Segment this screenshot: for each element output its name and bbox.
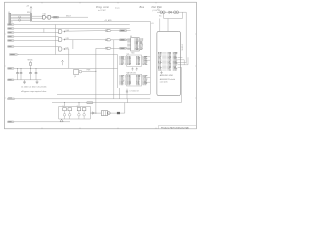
ground GND1	[24, 80, 26, 82]
gate U2C	[59, 47, 62, 51]
svg-text:7400: 7400	[131, 52, 135, 54]
speaker LS1	[101, 111, 107, 116]
gate U1B	[48, 15, 51, 19]
wire U2B out	[64, 39, 105, 41]
wire osc out	[90, 112, 96, 114]
wire net D2	[14, 32, 59, 34]
svg-text:Y2: Y2	[77, 106, 79, 108]
svg-text:to ICSP: to ICSP	[98, 9, 106, 12]
jumper JP2	[19, 19, 21, 21]
wire low rail	[52, 102, 87, 104]
IC U4 left pins	[127, 38, 130, 40]
ground GND4	[60, 119, 63, 122]
wire OSC1	[15, 98, 151, 100]
svg-text:SHIELD: SHIELD	[182, 43, 184, 50]
net label D2	[8, 32, 14, 34]
svg-text:PICduino NDR 2018-03-07(A): PICduino NDR 2018-03-07(A)	[161, 126, 189, 129]
wire vertical right trunk	[149, 21, 151, 94]
net tag MCLR box	[53, 16, 59, 18]
capacitor C3	[30, 68, 32, 72]
net label RST	[8, 46, 14, 48]
module A1 (Arduino)	[157, 31, 181, 95]
buffer U3B	[105, 39, 107, 41]
oscillator group	[58, 106, 60, 119]
junction dot PWR	[95, 71, 96, 72]
svg-text:C1 100n C2 100n C3,C4 100n: C1 100n C2 100n C3,C4 100n	[21, 87, 46, 89]
wire right down	[185, 12, 187, 63]
module right bracket wires	[178, 56, 183, 58]
ferrite bead FB1	[117, 112, 120, 114]
svg-text:Bus: Bus	[140, 5, 145, 9]
wire power loop	[163, 14, 165, 19]
svg-text:Y1: Y1	[62, 106, 64, 108]
module pin names right	[168, 51, 169, 54]
svg-text:C7 100n C8: C7 100n C8	[130, 91, 139, 93]
net tag U3B out	[120, 39, 127, 41]
ground GND3	[90, 112, 92, 114]
wire net D0	[14, 24, 130, 26]
capacitor C2	[20, 68, 22, 72]
buffer U3A	[105, 30, 107, 32]
wire into module top	[159, 19, 161, 32]
svg-text:MCLR: MCLR	[66, 16, 72, 18]
power flag VCC above RN1	[30, 8, 32, 13]
svg-text:U6 74HC595: U6 74HC595	[127, 73, 136, 75]
svg-text:conn (ref): conn (ref)	[160, 82, 168, 84]
svg-text:all bypass caps required close: all bypass caps required close	[21, 90, 46, 93]
wire U2C down to rail	[68, 49, 70, 68]
wire net D1	[14, 28, 130, 30]
net label VCC rail	[8, 68, 14, 70]
wire net RST	[14, 46, 59, 48]
module inner stubs	[162, 52, 166, 54]
wire jack feed	[96, 112, 125, 114]
sheet border frame	[5, 2, 197, 129]
svg-text:Vin: Vin	[159, 15, 161, 17]
net label GND rail	[8, 79, 14, 81]
gate U2A	[59, 29, 62, 33]
crystal Y1	[63, 108, 67, 111]
wire to +5V rail right	[32, 20, 150, 22]
capacitor C1	[17, 68, 19, 72]
gate U2B	[59, 37, 62, 41]
buffer U3C	[105, 47, 107, 49]
wire FB1 up	[124, 103, 126, 114]
ground GND2	[36, 80, 38, 82]
wire vertical junction x56	[54, 25, 56, 55]
svg-text:Q1: Q1	[74, 76, 76, 78]
wire GNDD	[14, 121, 70, 123]
capacitor Y1 load	[63, 114, 66, 117]
wire right riser	[180, 67, 182, 102]
wire VCC rail	[14, 67, 117, 69]
transistor Q1	[74, 70, 79, 75]
gate U1A	[43, 15, 46, 19]
wire ICSP corner	[96, 47, 105, 49]
wire U1B output net MCLR	[52, 16, 88, 18]
net label D3	[8, 36, 14, 38]
net label GNDD	[8, 121, 14, 123]
net tag U3C out	[120, 47, 127, 49]
wire RN1 to U1A	[32, 15, 43, 17]
crystal Y2	[77, 108, 81, 111]
svg-text:+5V_ARD: +5V_ARD	[104, 19, 112, 22]
wire GND rail	[14, 79, 41, 81]
net label D0	[8, 24, 14, 26]
capacitor C9 C10	[174, 11, 177, 14]
wire Q1 out	[82, 70, 96, 72]
power flag mid	[62, 62, 64, 65]
capacitor Y2 load	[78, 114, 81, 117]
module ground mark	[161, 71, 163, 73]
module pin names left	[158, 51, 159, 54]
junction dots rail	[16, 67, 19, 70]
wire net D4	[14, 40, 59, 42]
wire osc risers	[64, 103, 66, 107]
wire U5 to trunk	[144, 56, 150, 58]
capacitor C4	[35, 68, 37, 72]
net label XTAL	[87, 102, 93, 104]
net label OSC1	[8, 98, 15, 100]
power flags below U5	[132, 68, 134, 70]
wire net D3	[14, 36, 59, 38]
title block	[159, 125, 197, 128]
svg-text:Prog. conn: Prog. conn	[96, 5, 110, 9]
net flag AREF	[10, 54, 19, 56]
svg-text:ARDUINO UNO: ARDUINO UNO	[160, 74, 174, 77]
svg-text:F1: F1	[158, 9, 160, 11]
diode D1	[169, 11, 171, 13]
svg-text:VR R1: VR R1	[28, 59, 33, 61]
net label D1	[8, 28, 14, 30]
junction vertical	[72, 40, 74, 49]
net tag U3A out	[120, 30, 127, 32]
wire net AREF	[19, 54, 118, 56]
wire jog D1-D2	[43, 29, 45, 33]
wire U2C out	[64, 48, 69, 50]
capacitor C7 C8 marks	[126, 89, 128, 91]
wire bundle J1 to RN1	[13, 13, 31, 15]
wire U6 to trunk	[144, 77, 150, 79]
jumper JP1	[19, 16, 21, 18]
vertical bus left of ICs	[117, 55, 119, 89]
wire U2A out	[64, 30, 105, 33]
net label D4	[8, 40, 14, 42]
wire mid rail	[57, 93, 150, 95]
